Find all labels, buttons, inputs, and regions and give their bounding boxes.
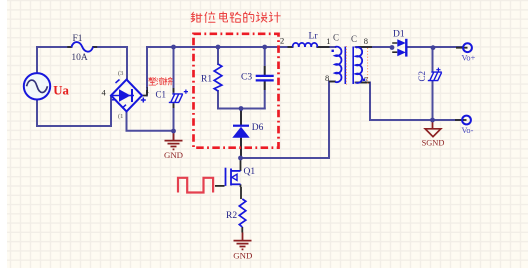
svg-text:10A: 10A [71, 53, 88, 63]
svg-text:GND: GND [233, 251, 252, 261]
svg-text:2: 2 [280, 36, 284, 46]
svg-text:(3: (3 [118, 70, 123, 77]
svg-text:Lr: Lr [309, 32, 319, 42]
svg-text:D6: D6 [252, 123, 264, 133]
svg-text:8: 8 [325, 73, 329, 83]
svg-text:Vo-: Vo- [462, 126, 474, 135]
svg-text:(1: (1 [118, 113, 123, 120]
svg-text:1: 1 [145, 85, 149, 95]
svg-text:C: C [333, 33, 339, 43]
svg-text:8: 8 [364, 36, 368, 46]
svg-text:R2: R2 [226, 211, 237, 221]
svg-text:C2: C2 [417, 71, 427, 82]
svg-text:D1: D1 [393, 30, 405, 40]
svg-text:GND: GND [164, 150, 183, 160]
svg-text:SGND: SGND [422, 139, 445, 148]
svg-text:Q1: Q1 [244, 167, 256, 177]
svg-text:7: 7 [364, 75, 368, 85]
svg-text:C3: C3 [241, 73, 252, 83]
svg-text:C: C [351, 34, 357, 44]
svg-text:R1: R1 [201, 75, 212, 85]
svg-text:F1: F1 [72, 34, 82, 44]
svg-text:Vo+: Vo+ [462, 54, 476, 63]
svg-text:Ua: Ua [53, 84, 69, 98]
svg-text:C1: C1 [156, 90, 167, 100]
svg-text:1: 1 [326, 36, 330, 46]
